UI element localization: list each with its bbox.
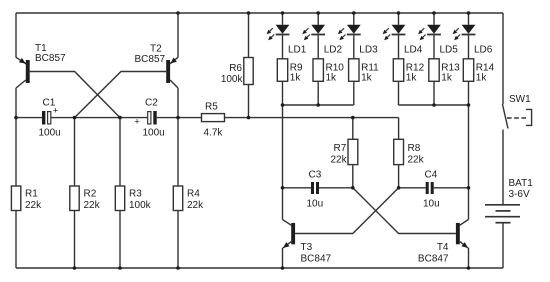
- wire left rail to C1: [16, 117, 42, 119]
- svg-text:22k: 22k: [187, 200, 204, 211]
- svg-text:BC857: BC857: [135, 54, 166, 65]
- svg-text:100k: 100k: [221, 74, 244, 85]
- wire LED group 2 down to T4 collector node: [468, 105, 470, 188]
- capacitor C1 100u (electrolytic): [42, 105, 59, 124]
- svg-text:1k: 1k: [290, 73, 302, 84]
- wire R6 bottom: [248, 85, 250, 118]
- resistor R4: [173, 186, 182, 211]
- wire LD2 anode from top rail: [317, 13, 319, 25]
- svg-text:LD6: LD6: [474, 45, 493, 56]
- svg-text:R6: R6: [229, 63, 242, 74]
- svg-text:R8: R8: [408, 143, 421, 154]
- svg-text:100u: 100u: [143, 128, 165, 139]
- wire R3 bottom: [119, 211, 121, 269]
- svg-text:SW1: SW1: [509, 94, 531, 105]
- wire R8 node to C4: [399, 187, 426, 189]
- svg-text:R7: R7: [334, 143, 347, 154]
- junction dots ground rail: [73, 266, 471, 270]
- wire T3 base to R8 node (cross coupling): [295, 188, 399, 234]
- wire C4 to T4 collector node: [434, 187, 469, 189]
- wire R9 bottom: [282, 81, 284, 105]
- resistor R10: [313, 59, 323, 82]
- svg-text:BC857: BC857: [35, 53, 66, 64]
- capacitor C2 100u (electrolytic): [134, 111, 156, 128]
- svg-text:1k: 1k: [476, 73, 488, 84]
- wire switch to battery: [502, 130, 504, 205]
- svg-text:T3: T3: [301, 242, 313, 253]
- wire T4 collector down: [468, 188, 470, 220]
- wire LD4 anode from top rail: [398, 13, 400, 25]
- transistor T4 BC847: [456, 220, 469, 249]
- svg-text:1k: 1k: [361, 73, 373, 84]
- wire R14 bottom: [468, 81, 470, 105]
- svg-text:R3: R3: [129, 189, 142, 200]
- svg-text:3-6V: 3-6V: [509, 189, 530, 200]
- resistor R14: [463, 59, 473, 82]
- svg-text:LD4: LD4: [404, 45, 423, 56]
- svg-text:T2: T2: [150, 44, 162, 55]
- wire left rail middle: [15, 88, 17, 186]
- svg-text:C4: C4: [425, 170, 438, 181]
- junction dots C3/C4 line: [281, 186, 471, 190]
- wire C1 to R2/R3 nodes: [51, 117, 148, 119]
- wire R7 top: [352, 118, 354, 140]
- wire LD3 anode from top rail: [353, 13, 355, 25]
- wire R4 top: [177, 118, 179, 186]
- svg-text:BC847: BC847: [301, 254, 332, 265]
- svg-text:LD5: LD5: [440, 45, 459, 56]
- resistor R12: [393, 59, 403, 82]
- resistor R9: [277, 59, 287, 82]
- LED LD6: [453, 25, 476, 40]
- wire LED group 1 bottom rail: [283, 104, 354, 106]
- svg-text:22k: 22k: [25, 200, 42, 211]
- wire LD3 cathode to R11: [353, 35, 355, 58]
- svg-text:LD1: LD1: [288, 45, 307, 56]
- svg-text:100u: 100u: [39, 128, 61, 139]
- wire battery to ground rail: [502, 223, 504, 268]
- wire R6 top: [248, 13, 250, 58]
- svg-text:1k: 1k: [441, 73, 453, 84]
- wire LD1 cathode to R9: [282, 35, 284, 58]
- resistor R3: [115, 186, 124, 211]
- svg-text:R2: R2: [84, 189, 97, 200]
- battery BAT1: [485, 205, 520, 223]
- svg-text:T4: T4: [437, 242, 449, 253]
- junction dots LED group rails: [281, 103, 471, 107]
- wire R8 bottom: [398, 165, 400, 188]
- resistor R13: [429, 59, 439, 82]
- resistor R2: [70, 186, 79, 211]
- svg-text:1k: 1k: [326, 73, 338, 84]
- wire T3 collector node to C3: [283, 187, 312, 189]
- svg-text:10u: 10u: [423, 199, 440, 210]
- wire T2 collector down: [177, 88, 179, 118]
- transistor T1 BC857: [16, 57, 30, 88]
- svg-text:22k: 22k: [84, 200, 101, 211]
- svg-text:BAT1: BAT1: [509, 178, 534, 189]
- wire left rail top (T1 emitter feed): [15, 13, 17, 58]
- wire C3 to R7 node: [319, 187, 353, 189]
- junction dots top rail: [176, 11, 470, 15]
- wire LD6 cathode to R14: [468, 35, 470, 58]
- resistor R7: [348, 139, 358, 164]
- svg-text:1k: 1k: [406, 73, 418, 84]
- svg-text:C2: C2: [145, 98, 158, 109]
- capacitor C4 10u: [426, 182, 434, 194]
- transistor T3 BC847: [283, 220, 296, 249]
- svg-text:BC847: BC847: [418, 253, 449, 264]
- svg-text:22k: 22k: [330, 154, 347, 165]
- wire R2 top: [74, 118, 76, 186]
- wire LED group 2 bottom rail: [399, 104, 469, 106]
- resistor R1: [11, 186, 20, 211]
- wire left rail bottom: [15, 211, 17, 269]
- svg-text:+: +: [134, 117, 140, 128]
- wire LD2 cathode to R10: [317, 35, 319, 58]
- capacitor C3 10u: [311, 182, 319, 194]
- wire R8 top from R5 line: [398, 118, 400, 140]
- svg-text:LD2: LD2: [324, 45, 343, 56]
- wire C2 to R5: [157, 117, 202, 119]
- wire LD5 cathode to R13: [433, 35, 435, 58]
- resistor R6: [244, 58, 253, 85]
- wire top supply rail: [16, 12, 503, 14]
- resistor R5: [202, 114, 225, 122]
- wire T4 emitter to ground rail: [468, 248, 470, 268]
- wire R11 bottom: [353, 81, 355, 105]
- wire LD6 anode from top rail: [468, 13, 470, 25]
- svg-text:C3: C3: [309, 170, 322, 181]
- wire R7 bottom: [352, 165, 354, 188]
- junction dots C1/C2/R5 line: [14, 116, 354, 120]
- wire LD4 cathode to R12: [398, 35, 400, 58]
- resistor R11: [349, 59, 359, 82]
- wire T2 base to C1 node: [75, 72, 167, 118]
- wire T1 base to C2 node: [30, 72, 120, 118]
- wire R2 bottom: [74, 211, 76, 269]
- wire R3 top: [119, 118, 121, 186]
- svg-text:10u: 10u: [307, 199, 324, 210]
- svg-text:LD3: LD3: [359, 45, 378, 56]
- svg-text:C1: C1: [43, 98, 56, 109]
- resistor R8: [394, 139, 404, 164]
- switch SW1 actuator dashed link: [507, 117, 526, 119]
- LED LD4: [383, 25, 406, 40]
- wire right rail to switch: [502, 13, 504, 104]
- wire R5 to R6/R7/R8 line: [225, 117, 399, 119]
- svg-text:4.7k: 4.7k: [204, 128, 224, 139]
- wire bottom ground rail: [16, 267, 503, 269]
- transistor T2 BC857: [166, 57, 178, 88]
- svg-text:R1: R1: [25, 189, 38, 200]
- svg-text:22k: 22k: [408, 154, 425, 165]
- wire R4 bottom: [177, 211, 179, 269]
- svg-text:100k: 100k: [129, 200, 152, 211]
- switch SW1 actuator bracket: [526, 109, 532, 125]
- wire R13 bottom: [433, 81, 435, 105]
- switch SW1 lever: [502, 104, 508, 129]
- wire LD1 anode from top rail: [282, 13, 284, 25]
- LED LD3: [338, 25, 361, 40]
- LED LD2: [302, 25, 325, 40]
- LED LD5: [418, 25, 441, 40]
- svg-text:R5: R5: [205, 102, 218, 113]
- svg-text:R4: R4: [187, 189, 200, 200]
- wire T4 base to R7 node (cross coupling): [353, 188, 456, 234]
- wire T3 emitter to ground rail: [282, 248, 284, 268]
- LED LD1: [267, 25, 290, 40]
- wire T3 collector down: [282, 188, 284, 220]
- wire R12 bottom: [398, 81, 400, 105]
- wire LED group 1 down to T3 collector node: [282, 105, 284, 188]
- wire LD5 anode from top rail: [433, 13, 435, 25]
- wire T2 emitter feed from top rail: [177, 13, 179, 58]
- wire R10 bottom: [317, 81, 319, 105]
